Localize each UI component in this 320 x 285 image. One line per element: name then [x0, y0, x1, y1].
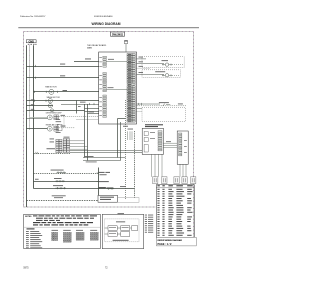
hi-limit label: [54, 177, 62, 180]
connector pinout grid D: [90, 232, 92, 234]
wash motor capacitor: [48, 104, 52, 108]
board bottom labels: [123, 125, 128, 128]
ui board pin header: [179, 133, 182, 135]
connector pinout grid D label: [90, 229, 97, 232]
board right pin inner labels: [128, 53, 131, 56]
svg-text:REFER WIRING DIAGRAM: REFER WIRING DIAGRAM: [158, 239, 183, 242]
label heater zone: [85, 155, 94, 158]
mid text column: [56, 118, 61, 121]
notes box: [24, 214, 101, 248]
drain pump wire: [27, 110, 85, 112]
power cord dashed box: [105, 219, 139, 242]
rinse aid wire label: [61, 125, 66, 128]
board left pin labels: [99, 56, 102, 59]
svg-text:5975: 5975: [23, 268, 29, 270]
svg-text:72: 72: [105, 268, 108, 270]
wire BU-R y68.2: [137, 67, 151, 69]
fan motor wire label: [63, 89, 68, 92]
connector pinout grid A: [52, 232, 54, 234]
hi-limit left label: [35, 178, 39, 181]
wire BU-W y63.7: [137, 63, 165, 65]
bus wire N: [33, 45, 35, 188]
user interface board: [177, 131, 188, 164]
board internal wire y61.3: [106, 60, 128, 62]
svg-text:DETERGENT DISP: DETERGENT DISP: [46, 113, 63, 115]
wire with component y104: [61, 104, 99, 106]
vertical wire pair: [84, 104, 86, 158]
wire to board y77.8: [27, 77, 99, 79]
wash motor capacitor wire: [27, 105, 54, 107]
hi-limit thermostat label: [162, 59, 169, 62]
hi-limit thermostat: [165, 63, 168, 66]
wash motor ticks: [34, 100, 36, 102]
board link wires: [163, 142, 177, 144]
thermostat comps: [55, 187, 66, 189]
connector ticks y66: [33, 65, 35, 67]
bus wire G/Y (green): [29, 45, 31, 130]
bus wire L1: [26, 45, 28, 207]
L wire inside board: [118, 118, 126, 120]
board link label: [166, 140, 171, 143]
symbols list column: [145, 214, 147, 217]
wire y160.2: [83, 160, 121, 162]
svg-text:Publication No. 5995449257: Publication No. 5995449257: [20, 15, 46, 18]
power cord inner label: [116, 220, 125, 223]
connector pinout grid B: [63, 232, 65, 234]
detergent wire label: [61, 114, 66, 117]
fan motor wire: [34, 91, 99, 93]
power supply board: [142, 128, 163, 154]
dispenser row comps: [57, 172, 66, 174]
thermostat wire: [34, 188, 99, 190]
door row comps: [99, 186, 106, 189]
wires grid to verticals: [70, 140, 85, 142]
mid text AT THE: [86, 161, 97, 164]
board left pin header J1: [103, 56, 107, 58]
power cord comp 2: [121, 226, 130, 231]
long wire y150.5: [70, 150, 142, 152]
door row label: [98, 187, 105, 188]
thermistor label: [98, 172, 104, 173]
hi-limit wire: [34, 181, 99, 183]
door row wire right: [99, 188, 135, 190]
junction wire vertical: [98, 168, 100, 196]
vertical dashed V1: [125, 100, 127, 200]
drain pump left label: [31, 108, 34, 111]
dispenser row label: [51, 169, 64, 172]
connector block CN2: [56, 139, 59, 141]
notes divider: [24, 226, 101, 228]
svg-text:GND: GND: [28, 40, 34, 44]
power cord section box: [102, 214, 143, 248]
svg-text:NOTES: NOTES: [25, 216, 32, 218]
connector ticks y77.8: [33, 77, 35, 79]
drain pump: [51, 109, 54, 112]
long wire y152.3: [70, 152, 142, 154]
svg-text:FAN MOTOR: FAN MOTOR: [45, 85, 57, 88]
detergent connector grid: [54, 115, 56, 117]
wire into vent box: [137, 107, 143, 109]
connector pinout grid A label: [52, 229, 59, 232]
wire BU-R y74.3: [137, 73, 165, 75]
color code title: [27, 228, 35, 229]
connector pinout grid C label: [76, 229, 83, 232]
connector pinout grid B label: [63, 229, 70, 232]
power cord bottom label: [113, 240, 129, 241]
hi-limit thermostat box: [142, 57, 184, 68]
wire y157.7: [83, 157, 126, 159]
wash motor wire: [27, 100, 99, 102]
main control board: [99, 52, 137, 124]
door switch box: [98, 195, 118, 202]
junction vertical x76.2: [76, 101, 78, 114]
svg-text:WIRING DIAGRAM: WIRING DIAGRAM: [92, 22, 121, 26]
wire to board y61.6: [74, 61, 99, 63]
svg-text:PAGE : 1 / 2: PAGE : 1 / 2: [158, 242, 173, 246]
power cord comp 1: [108, 226, 117, 231]
board bottom drop wires: [127, 131, 129, 140]
hi-limit comps: [55, 180, 65, 182]
svg-text:DWL28011: DWL28011: [112, 34, 124, 37]
connector pinout grid C: [76, 232, 78, 234]
dashed wire y119.5: [77, 119, 99, 121]
terminal blocks: [153, 177, 158, 184]
thermostat label: [53, 184, 63, 187]
power cord wires: [105, 227, 108, 229]
detergent wire left2: [27, 118, 48, 120]
wash motor left labels: [31, 98, 34, 101]
detergent wire left: [30, 117, 48, 119]
fan motor ticks: [34, 91, 36, 93]
relay wires: [85, 108, 99, 110]
turbidity label: [98, 181, 108, 182]
vent fan switch: [163, 104, 165, 106]
power cord section label: [118, 213, 125, 214]
power board title: [145, 124, 163, 125]
rinse aid solenoid: [47, 126, 52, 131]
grid label: [64, 136, 70, 139]
mid small box: [57, 124, 62, 130]
water valve label: [47, 147, 56, 150]
water valve: [59, 149, 62, 152]
capacitor C2: [124, 39, 128, 42]
vent fan wire: [137, 103, 161, 105]
svg-text:WASH MOTOR: WASH MOTOR: [47, 96, 61, 99]
rinse aid wire left: [27, 128, 48, 130]
ui board drops: [179, 164, 181, 177]
wire label y104: [80, 101, 86, 104]
door switch side box: [118, 198, 140, 203]
vent fan label: [159, 101, 169, 104]
power board inner parts: [144, 132, 148, 136]
notes text lines: [33, 215, 37, 216]
grid labels left: [50, 138, 55, 141]
drain pump box: [142, 70, 180, 78]
page reference box: [157, 237, 197, 246]
svg-text:KUEF/KGLEF45AS0: KUEF/KGLEF45AS0: [94, 15, 113, 18]
power cord comp 4: [108, 232, 117, 237]
wire code table: [156, 185, 194, 238]
power cord comp 5: [121, 232, 130, 237]
rinse aid connector grid: [54, 126, 56, 128]
wash motor M2: [48, 99, 52, 103]
wire label BK-W mid: [89, 111, 95, 114]
svg-text:RINSE AID DISP: RINSE AID DISP: [46, 123, 60, 126]
wire label BK-W y61.6: [85, 58, 91, 61]
door wire label: [52, 194, 66, 197]
door switch wire: [27, 200, 99, 202]
ground connector GND: [26, 40, 36, 43]
detergent dispenser solenoid: [47, 115, 52, 120]
diagram id box: [111, 32, 125, 36]
water valve wire: [34, 153, 71, 155]
wire label y77.8: [60, 74, 65, 77]
ui board marks: [184, 139, 187, 142]
junction ticks: [97, 172, 99, 174]
drain pump label: [155, 70, 165, 73]
rinse aid vertical link: [63, 117, 65, 128]
wire label BU y66: [60, 63, 65, 66]
rinse aid wire dashed right: [59, 127, 75, 129]
dispenser row wire: [34, 173, 99, 175]
power board drops: [151, 154, 153, 176]
color code list: [26, 230, 29, 233]
vertical dashed V2: [134, 131, 136, 198]
main dashed border: [24, 31, 194, 33]
ground connector pin ticks: [28, 43, 30, 46]
wire BU-W y58.9: [137, 58, 147, 60]
board internal wire y89.6: [106, 89, 128, 91]
board right pin header J2: [127, 54, 135, 56]
detergent wire dashed right: [59, 116, 99, 118]
connector block CN1: [63, 139, 66, 141]
svg-text:MAIN: MAIN: [87, 46, 93, 49]
power board pin header: [158, 131, 162, 133]
wire to board y66: [27, 66, 99, 68]
header rule: [18, 27, 199, 29]
fan motor M1: [49, 89, 54, 94]
power cord comp 3: [132, 226, 138, 231]
drain pump motor: [165, 74, 168, 77]
vent fan dashed box: [142, 108, 186, 122]
